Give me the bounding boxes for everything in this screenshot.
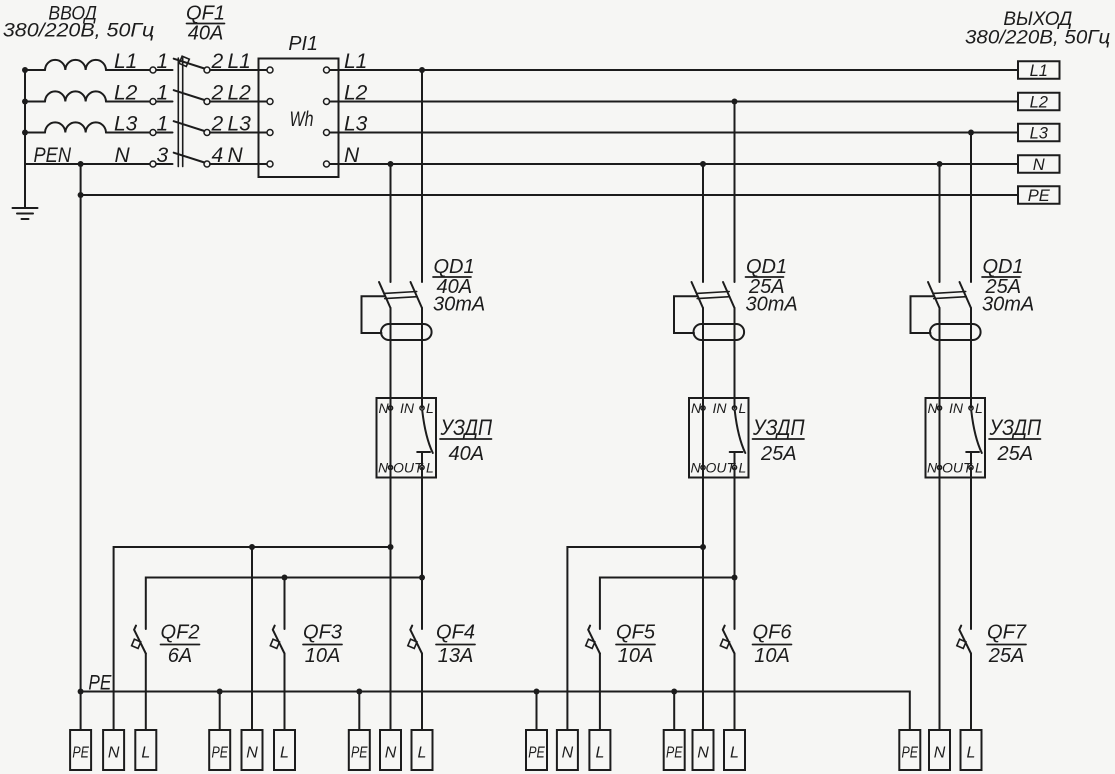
node dot N tap group 1 (388, 161, 394, 167)
socket terminal PE #3 (349, 730, 370, 770)
svg-text:QF5: QF5 (616, 622, 656, 644)
RCD QD1 L blade (723, 282, 735, 308)
svg-text:L: L (739, 400, 747, 416)
svg-text:L: L (418, 745, 427, 762)
wire L2 coil to QF1 (106, 101, 150, 103)
wire N out УЗДП 1 to socket N3 (390, 468, 392, 731)
svg-text:10А: 10А (305, 645, 341, 667)
svg-text:N: N (1033, 156, 1045, 174)
node dot PE start (78, 192, 84, 198)
svg-text:PE: PE (528, 745, 545, 762)
svg-text:L1: L1 (114, 50, 137, 73)
output terminal PE (1018, 186, 1060, 204)
wire L through RCD 3 down to УЗДП 3 (970, 308, 972, 408)
УЗДП IN terminals (937, 406, 941, 410)
svg-text:N: N (562, 745, 574, 762)
svg-text:QF3: QF3 (303, 622, 342, 644)
УЗДП OUT terminals (937, 465, 941, 469)
svg-text:N: N (379, 400, 390, 416)
svg-text:380/220В, 50Гц: 380/220В, 50Гц (965, 28, 1110, 49)
svg-text:N: N (246, 745, 258, 762)
wire QF7 output to socket L (970, 654, 972, 731)
wire PEN/PE vertical down (80, 164, 82, 730)
socket terminal PE #4 (526, 730, 547, 770)
svg-text:PE: PE (88, 672, 112, 695)
svg-text:QF2: QF2 (161, 622, 200, 644)
node dot L3 tap group 3 (968, 130, 974, 136)
wire L3 meter to output terminal (339, 132, 1019, 134)
inductor winding L2 (45, 91, 106, 101)
svg-text:QF7: QF7 (987, 622, 1027, 644)
breaker release square (586, 639, 595, 648)
svg-text:PE: PE (1028, 187, 1051, 205)
УЗДП internal switch (971, 411, 982, 453)
wire N meter to output terminal (339, 163, 1019, 165)
wire L2 from bus to coil (25, 101, 45, 103)
svg-text:30mA: 30mA (433, 294, 485, 316)
wire L through RCD 1 down to УЗДП (421, 308, 423, 408)
socket terminal N #4 (557, 730, 578, 770)
wire PE drop x=219.7 (219, 692, 221, 731)
wire L continues to QF4 (421, 578, 423, 630)
socket terminal N #2 (242, 730, 263, 770)
svg-text:IN: IN (400, 400, 415, 416)
node dot PE bus x=674.2 (671, 689, 677, 695)
svg-text:IN: IN (713, 400, 728, 416)
svg-text:L: L (967, 745, 976, 762)
svg-text:N: N (385, 745, 397, 762)
svg-text:N: N (928, 400, 939, 416)
svg-text:L: L (730, 745, 739, 762)
svg-text:PE: PE (666, 745, 683, 762)
wire N drop group 1 (390, 164, 392, 282)
svg-text:L: L (426, 400, 434, 416)
wire L drop group 3 (from L3) (970, 133, 972, 283)
wire L2 QF1 to meter (210, 101, 259, 103)
energy meter PI1 box (259, 59, 339, 178)
node dot N tap group 3 (937, 161, 943, 167)
wire N QF1 to meter (210, 163, 259, 165)
node dot N tap group 2 (700, 161, 706, 167)
breaker release square (270, 639, 279, 648)
node dot bus-L1 (22, 67, 28, 73)
svg-text:40А: 40А (449, 443, 485, 465)
breaker blade (134, 626, 146, 654)
wire L rail section 2 (600, 578, 735, 630)
breaker release square (720, 639, 729, 648)
node dot L rail end group1 (419, 575, 425, 581)
svg-text:L3: L3 (114, 113, 138, 136)
node dot L rail 2 end (732, 575, 738, 581)
wire PE drop x=536.5 (536, 692, 538, 731)
wire L through RCD 2 down to УЗДП 2 (734, 308, 736, 408)
breaker release square (408, 639, 417, 648)
wire L drop group 2 (from L2) (734, 102, 736, 283)
node dot PE bus x=359.3 (356, 689, 362, 695)
svg-text:УЗДП: УЗДП (989, 415, 1041, 440)
wire L3 from bus to coil (25, 132, 45, 134)
wire PEN row to QF1 (25, 163, 150, 165)
breaker blade (959, 626, 971, 654)
svg-text:L: L (141, 745, 150, 762)
ground (13, 207, 38, 209)
wire L1 QF1 to meter (210, 69, 259, 71)
svg-text:1: 1 (157, 113, 169, 136)
wire N2 drop (251, 547, 253, 730)
svg-text:1: 1 (157, 82, 169, 105)
breaker release square (957, 639, 966, 648)
wire L drop group 1 (from L1) (421, 70, 423, 282)
wire N through RCD 1 down to N rail (390, 308, 392, 547)
node dot PEN split (78, 161, 84, 167)
wire QF4 output to socket L (421, 654, 423, 731)
arc-fault device УЗДП box (at x=939.5) (926, 398, 986, 478)
meter terminal stubs L1 (259, 69, 268, 71)
output terminal L3 (1018, 124, 1060, 142)
socket terminal N #5 (693, 730, 714, 770)
svg-text:N: N (691, 460, 702, 476)
svg-text:10А: 10А (754, 645, 790, 667)
svg-text:PI1: PI1 (288, 33, 318, 55)
RCD QD1 L blade (960, 282, 972, 308)
wire N rail section 1 (114, 547, 391, 730)
node dot PE bus x=219.7 (217, 689, 223, 695)
wire QF3 feed drop (284, 578, 286, 630)
svg-text:QD1: QD1 (434, 256, 475, 278)
svg-text:25А: 25А (988, 645, 1025, 667)
wire L1 from bus to coil (25, 69, 45, 71)
node dot N rail 1 / socket N2 (249, 544, 255, 550)
node dot L2 tap group 2 (732, 99, 738, 105)
socket terminal N #1 (103, 730, 124, 770)
socket terminal PE #2 (209, 730, 230, 770)
svg-text:25А: 25А (997, 443, 1034, 465)
RCD QD1 N blade (928, 282, 940, 308)
socket terminal PE #1 (70, 730, 91, 770)
wire L rail section 1 (146, 578, 422, 630)
wire L out УЗДП 2 to L rail 2 (734, 468, 736, 578)
svg-text:OUT: OUT (942, 460, 973, 476)
socket terminal N #6 (929, 730, 950, 770)
svg-text:PE: PE (211, 745, 228, 762)
wire N rail section 2 (567, 547, 703, 730)
RCD QD1 linkage bars (384, 292, 417, 294)
arc-fault device УЗДП box (at x=390.5) (377, 398, 437, 478)
wire L1 meter to output terminal (339, 69, 1019, 71)
svg-text:L2: L2 (1030, 94, 1048, 112)
wire QF2 output to socket L (145, 654, 147, 731)
svg-text:N: N (691, 400, 702, 416)
breaker blade (723, 626, 735, 654)
RCD QD1 linkage bars (697, 292, 730, 294)
node dot N rail 2 end (700, 544, 706, 550)
inductor winding L1 (45, 60, 106, 70)
svg-text:30mA: 30mA (746, 294, 798, 316)
svg-text:L: L (975, 460, 983, 476)
svg-text:QD1: QD1 (983, 256, 1024, 278)
QF1 release square (179, 56, 189, 66)
wire N drop group 3 (939, 164, 941, 282)
RCD QD1 differential transformer (381, 324, 432, 340)
svg-text:N: N (378, 460, 389, 476)
meter terminal stubs L3 (259, 132, 268, 134)
УЗДП OUT terminals (701, 465, 705, 469)
svg-text:3: 3 (157, 144, 169, 167)
wire L3 coil to QF1 (106, 132, 150, 134)
svg-text:УЗДП: УЗДП (752, 415, 804, 440)
svg-text:N: N (115, 144, 131, 167)
QF1 linkage bar (177, 58, 179, 167)
УЗДП internal switch (735, 411, 746, 453)
wire PE drop x=674.2 (673, 692, 675, 731)
node dot bus-L3 (22, 130, 28, 136)
RCD QD1 differential transformer (930, 324, 981, 340)
RCD QD1 L blade (411, 282, 423, 308)
breaker blade (410, 626, 422, 654)
socket terminal PE #6 (899, 730, 920, 770)
svg-text:N: N (108, 745, 120, 762)
svg-text:QF6: QF6 (753, 622, 793, 644)
svg-text:L1: L1 (1030, 62, 1048, 80)
wire QF5 output to socket L (599, 654, 601, 731)
circuit breaker QF1 (150, 59, 210, 167)
wire: left source bus (24, 70, 26, 207)
socket terminal L #1 (135, 730, 156, 770)
svg-text:PE: PE (351, 745, 368, 762)
УЗДП IN terminals (388, 406, 392, 410)
socket terminal L #5 (724, 730, 745, 770)
RCD QD1 test resistor box (362, 296, 385, 333)
socket terminal N #3 (380, 730, 401, 770)
wire L out УЗДП 3 to QF7 (970, 468, 972, 630)
node dot L rail 1 / QF3 tap (282, 575, 288, 581)
breaker blade (588, 626, 600, 654)
wire PE bus (81, 692, 910, 731)
wire PE drop x=359.3 (358, 692, 360, 731)
svg-text:N: N (927, 460, 938, 476)
RCD QD1 N blade (379, 282, 391, 308)
УЗДП OUT terminals (388, 465, 392, 469)
svg-text:N: N (934, 745, 946, 762)
arc-fault device УЗДП box (at x=703.0) (689, 398, 749, 478)
output terminal L1 (1018, 61, 1060, 79)
meter terminal stubs N (259, 163, 268, 165)
wire L continues to QF6 (734, 578, 736, 630)
svg-text:Wh: Wh (290, 108, 314, 131)
socket terminal L #3 (412, 730, 433, 770)
RCD QD1 linkage bars (933, 292, 966, 294)
svg-text:L: L (280, 745, 289, 762)
svg-text:OUT: OUT (393, 460, 424, 476)
svg-text:PE: PE (72, 745, 89, 762)
УЗДП IN terminals (701, 406, 705, 410)
svg-text:25А: 25А (760, 443, 797, 465)
wire N through RCD 3 down to socket N6 (939, 308, 941, 730)
RCD QD1 test resistor box (674, 296, 697, 333)
socket terminal L #4 (589, 730, 610, 770)
node dot PE bus x=536.5 (534, 689, 540, 695)
svg-text:6А: 6А (168, 645, 192, 667)
wire L out УЗДП 1 to L rail (421, 468, 423, 578)
RCD QD1 N blade (692, 282, 704, 308)
output terminal L2 (1018, 93, 1060, 111)
svg-text:30mA: 30mA (982, 294, 1034, 316)
svg-text:13А: 13А (438, 645, 474, 667)
svg-text:L2: L2 (114, 82, 138, 105)
node dot N rail end group1 (388, 544, 394, 550)
wire QF3 output to socket L (284, 654, 286, 731)
meter terminal stubs L2 (259, 101, 268, 103)
УЗДП internal switch (422, 411, 433, 453)
svg-text:PEN: PEN (34, 144, 72, 167)
socket terminal L #6 (961, 730, 982, 770)
wire N drop group 2 (702, 164, 704, 282)
svg-text:QF1: QF1 (186, 3, 225, 25)
socket terminal L #2 (274, 730, 295, 770)
socket terminal PE #5 (664, 730, 685, 770)
svg-text:1: 1 (157, 50, 169, 73)
svg-text:УЗДП: УЗДП (440, 415, 492, 440)
wire L2 meter to output terminal (339, 101, 1019, 103)
svg-text:N: N (697, 745, 709, 762)
wire L1 coil to QF1 (106, 69, 150, 71)
svg-text:L: L (739, 460, 747, 476)
svg-text:QD1: QD1 (746, 256, 787, 278)
svg-text:40А: 40А (188, 23, 224, 45)
RCD QD1 differential transformer (694, 324, 745, 340)
wire L3 QF1 to meter (210, 132, 259, 134)
breaker blade (273, 626, 285, 654)
RCD QD1 test resistor box (911, 296, 934, 333)
wire N out УЗДП 2 to socket N5 (702, 468, 704, 731)
node dot L1 tap group 1 (419, 67, 425, 73)
node dot PE bus x=80.6 (78, 689, 84, 695)
inductor winding L3 (45, 122, 106, 132)
svg-text:IN: IN (949, 400, 964, 416)
breaker release square (132, 639, 141, 648)
svg-text:L3: L3 (1030, 125, 1049, 143)
svg-text:QF4: QF4 (436, 622, 475, 644)
node dot bus-L2 (22, 99, 28, 105)
wire N through RCD 2 down to N rail 2 (702, 308, 704, 547)
svg-text:OUT: OUT (706, 460, 737, 476)
svg-text:10А: 10А (618, 645, 654, 667)
svg-text:L: L (975, 400, 983, 416)
output terminal N (1018, 155, 1060, 173)
wire QF6 output to socket L (734, 654, 736, 731)
svg-text:L: L (426, 460, 434, 476)
svg-text:380/220В, 50Гц: 380/220В, 50Гц (3, 21, 155, 42)
svg-text:PE: PE (902, 745, 919, 762)
wire PE line to output terminal (81, 194, 1018, 196)
svg-text:L: L (595, 745, 604, 762)
